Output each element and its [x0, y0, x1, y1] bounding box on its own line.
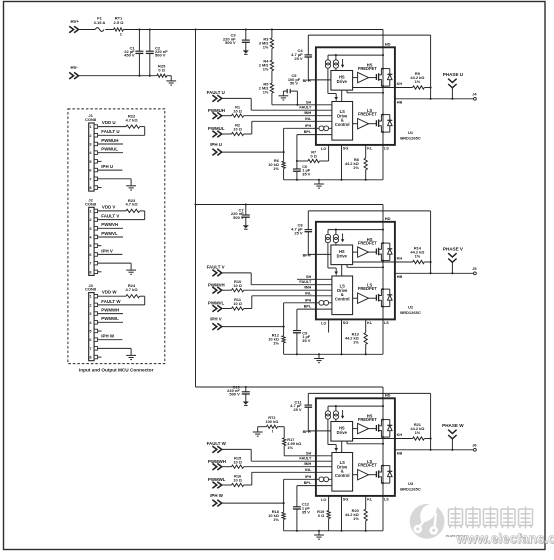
pin label SH: [306, 275, 312, 279]
svg-text:SH: SH: [306, 100, 312, 104]
svg-text:PWMVH: PWMVH: [101, 222, 118, 227]
svg-text:0 Ω: 0 Ω: [311, 154, 317, 159]
wire R25 to ground: [167, 76, 171, 81]
wire pin LO: [328, 145, 330, 161]
svg-text:KH: KH: [397, 82, 403, 86]
svg-text:Drive: Drive: [337, 430, 348, 435]
svg-text:6: 6: [89, 169, 91, 173]
wire pin SH stub: [297, 278, 332, 280]
svg-text:450 V: 450 V: [124, 53, 135, 58]
svg-text:SH: SH: [306, 451, 312, 455]
diode HS body: [383, 69, 392, 87]
wire left HV bus vertical: [195, 30, 197, 388]
svg-text:KH: KH: [397, 433, 403, 437]
svg-text:BRD1265C: BRD1265C: [400, 135, 421, 140]
capacitor C4 4.7 uF 25 V: [291, 35, 312, 80]
svg-text:CON8: CON8: [85, 287, 97, 292]
terminal J6: [472, 442, 477, 451]
svg-text:100 kΩ: 100 kΩ: [265, 419, 278, 424]
pin label IPH: [305, 124, 312, 128]
svg-text:BPL: BPL: [304, 130, 312, 134]
svg-text:1%: 1%: [273, 166, 279, 171]
svg-text:500 V: 500 V: [233, 215, 244, 220]
svg-text:IPH V: IPH V: [210, 317, 222, 322]
net flag PWMWH: [208, 459, 226, 470]
svg-text:HV+: HV+: [71, 19, 80, 24]
net flag IPH W: [210, 493, 224, 506]
pin label IPH: [305, 298, 312, 302]
net flag PHASE W: [442, 423, 464, 450]
svg-text:BPH: BPH: [303, 253, 311, 257]
pin 6 wire net IPH W: [98, 334, 123, 340]
svg-text:10 Ω: 10 Ω: [233, 283, 242, 288]
net flag PHASE V: [443, 247, 464, 274]
svg-text:SG: SG: [343, 498, 349, 502]
svg-text:1: 1: [89, 295, 91, 299]
svg-text:PWMVL: PWMVL: [101, 231, 118, 236]
wire HD drop: [382, 30, 384, 48]
pin 3 wire net PWMUH: [98, 138, 123, 144]
pin label FAULT: [299, 280, 312, 284]
svg-text:0 Ω: 0 Ω: [318, 513, 324, 518]
capacitor C12 1 uF 35 V: [293, 486, 310, 531]
wire HS Drive source ref: [347, 441, 384, 445]
svg-text:Control: Control: [335, 122, 350, 127]
svg-text:IPH W: IPH W: [101, 334, 115, 339]
svg-text:IPH V: IPH V: [101, 248, 113, 253]
junction C1 bottom: [138, 75, 140, 77]
label HS FREDFET: [358, 237, 377, 246]
svg-text:7: 7: [89, 262, 91, 266]
svg-text:SH: SH: [306, 275, 312, 279]
wire RT2 left to ground: [258, 427, 267, 432]
svg-text:Drive: Drive: [337, 79, 348, 84]
svg-text:KL: KL: [367, 321, 373, 325]
svg-text:LO: LO: [321, 147, 326, 151]
pin label BPL: [304, 481, 312, 485]
wire pin BPL: [297, 485, 332, 487]
wire KH to phase node: [424, 261, 431, 263]
svg-text:10 Ω: 10 Ω: [233, 478, 242, 483]
pin label INL: [305, 291, 312, 295]
svg-text:FAULT U: FAULT U: [207, 90, 225, 95]
pin 8 stub: [98, 356, 102, 358]
svg-text:8: 8: [89, 186, 91, 190]
connector J3 pins 1-8: [89, 294, 97, 359]
connector J2 pins 1-8: [89, 209, 97, 274]
wire FAULT input: [222, 449, 332, 461]
wire R to pin /INH: [244, 289, 332, 291]
pin 7 wire to ground: [98, 263, 132, 270]
wire R to pin INL: [244, 296, 332, 309]
svg-text:4.7 kΩ: 4.7 kΩ: [125, 202, 138, 207]
svg-text:INL: INL: [305, 468, 312, 472]
pin label LS: [384, 321, 389, 325]
svg-text:KL: KL: [367, 498, 373, 502]
svg-text:FAULT U: FAULT U: [101, 129, 119, 134]
net flag FAULT W: [207, 441, 227, 453]
transistor LS FREDFET: [376, 288, 384, 308]
svg-text:FREDFET: FREDFET: [358, 463, 377, 468]
wire HV bus to phase PHASE V HD: [196, 204, 384, 206]
svg-text:SG: SG: [343, 147, 349, 151]
svg-text:FREDFET: FREDFET: [358, 417, 377, 422]
arrow into LS control: [334, 268, 338, 276]
svg-text:4.7 kΩ: 4.7 kΩ: [125, 117, 138, 122]
wire bootstrap node line: [308, 393, 430, 449]
svg-text:PWMUH: PWMUH: [208, 108, 225, 113]
ground RT2: [253, 432, 263, 436]
wire HV+ to fuse: [79, 29, 95, 31]
svg-text:3: 3: [89, 227, 91, 231]
transistor LS FREDFET: [376, 465, 384, 485]
pin label BPL: [304, 130, 312, 134]
junction C2 bottom: [149, 75, 151, 77]
thermistor RT1 2.5 &#937;: [114, 15, 125, 37]
wire internal drain bus: [382, 47, 384, 180]
pin 6 wire net IPH V: [98, 248, 123, 254]
svg-text:1%: 1%: [415, 253, 421, 258]
svg-text:FAULT V: FAULT V: [101, 214, 119, 219]
wire internal drain bus: [382, 398, 384, 531]
svg-text:35 V: 35 V: [302, 338, 310, 343]
wire current source feed: [328, 54, 384, 60]
pin 4 wire net PWMUL: [98, 147, 123, 153]
ground C5: [279, 96, 289, 100]
wire pin BPL: [297, 308, 332, 310]
net flag PHASE U: [443, 72, 464, 99]
wire pin LO: [328, 496, 330, 511]
transistor LS FREDFET: [376, 114, 384, 134]
capacitor C1 22 uF 450 V: [124, 30, 143, 76]
pin label LO: [321, 498, 326, 502]
wire HV bus to phase PHASE W HD: [196, 386, 384, 388]
svg-text:2.5 Ω: 2.5 Ω: [114, 20, 125, 25]
svg-text:10 Ω: 10 Ω: [233, 301, 242, 306]
svg-text:6: 6: [89, 253, 91, 257]
wire I2 to HS Drive: [335, 419, 337, 421]
capacitor C2 220 nF 500 V: [146, 30, 168, 76]
current sense source: [319, 300, 329, 305]
capacitor C6 1 uF 35 V: [293, 160, 311, 180]
block HS Drive: [331, 422, 353, 442]
svg-text:/INH: /INH: [304, 286, 312, 290]
label HS FREDFET: [358, 62, 377, 71]
watermark chinese title: [449, 507, 533, 529]
svg-text:7: 7: [89, 177, 91, 181]
diode LS body: [383, 289, 392, 307]
junction C2 top: [149, 28, 151, 30]
wire pin BPH: [303, 253, 331, 257]
wire HS Drive to LS control: [341, 90, 343, 101]
svg-text:8: 8: [89, 270, 91, 274]
block LS Drive and Control: [332, 276, 353, 315]
diode LS body: [383, 115, 392, 133]
svg-text:SG: SG: [343, 321, 349, 325]
current direction arrow: [341, 234, 344, 243]
svg-text:LS: LS: [384, 498, 389, 502]
svg-text:BPH: BPH: [303, 79, 311, 83]
current source I1: [325, 411, 330, 419]
wire HV+ bus top: [123, 29, 383, 31]
resistor R18 10 k&#937;: [268, 503, 285, 531]
wire ground rail: [284, 353, 383, 355]
svg-text:1%: 1%: [415, 79, 421, 84]
svg-text:10 Ω: 10 Ω: [233, 460, 242, 465]
connector J1 pins 1-8: [89, 125, 97, 190]
resistor R12 10 k&#937;: [268, 327, 285, 355]
svg-text:PWMWL: PWMWL: [208, 477, 226, 482]
svg-text:INL: INL: [305, 291, 312, 295]
wire fuse to RT1: [105, 29, 113, 31]
svg-text:8: 8: [89, 356, 91, 360]
block HS Drive: [331, 71, 353, 91]
capacitor C5 100 pF 50 V: [283, 73, 300, 105]
block LS Drive and Control: [332, 102, 353, 141]
svg-text:1%: 1%: [273, 517, 279, 522]
block LS Drive and Control: [332, 453, 353, 492]
wire pin SG: [342, 319, 349, 354]
label U2 BRD1265C: [400, 305, 421, 315]
svg-text:500 V: 500 V: [155, 53, 166, 58]
current direction arrow: [341, 59, 344, 68]
wire PWML to R: [222, 133, 232, 135]
svg-text:5: 5: [89, 160, 91, 164]
svg-text:PWMWH: PWMWH: [208, 459, 226, 464]
capacitor C9 1 uF 35 V: [293, 309, 311, 354]
label LS FREDFET: [358, 108, 377, 117]
svg-text:IPH U: IPH U: [210, 142, 222, 147]
net flag PWMVL: [208, 300, 225, 311]
resistor R15 10 &#937;: [232, 456, 244, 469]
pin label FAULT: [299, 457, 312, 461]
block HS Drive: [331, 245, 353, 265]
label Input and Output MCU Connector: [79, 368, 154, 373]
svg-text:PWMUL: PWMUL: [101, 147, 118, 152]
resistor R19 0 &#937;: [317, 509, 330, 531]
wire pin BPH: [303, 430, 331, 434]
pin label SH: [306, 100, 312, 104]
svg-text:0 Ω: 0 Ω: [158, 67, 165, 72]
resistor R14 44.2 k&#937;: [410, 245, 424, 263]
op-amp driver IC U3 BRD1265C outline: [316, 398, 395, 496]
capacitor C10 220 nF 500 V: [227, 384, 250, 405]
pin 8 stub: [98, 271, 102, 273]
pin 1 wire net VDD U: [98, 120, 126, 127]
pin 5 stub: [98, 245, 102, 247]
net flag IPH V: [210, 317, 222, 330]
pin 2 wire net FAULT V: [98, 214, 145, 220]
buffer LS: [353, 470, 377, 480]
svg-text:2: 2: [89, 134, 91, 138]
wire bootstrap node line: [308, 35, 430, 99]
pin HB label: [397, 452, 403, 456]
wire HD drop: [382, 387, 384, 398]
label LS FREDFET: [358, 283, 377, 292]
wire PWMH to R: [222, 466, 232, 468]
resistor R5 2 M&#937;: [259, 71, 274, 95]
svg-text:PWMVH: PWMVH: [208, 283, 225, 288]
resistor R3 3 M&#937;: [259, 30, 274, 50]
current source I2: [333, 60, 338, 68]
arrow into LS control: [334, 94, 338, 102]
pin HD label: [385, 216, 391, 221]
op-amp driver IC U2 BRD1265C outline: [316, 222, 395, 320]
svg-text:50 V: 50 V: [290, 81, 298, 86]
svg-text:FREDFET: FREDFET: [358, 286, 377, 291]
wire pin KH: [353, 433, 413, 438]
wire I1 to control: [328, 419, 336, 444]
svg-text:1%: 1%: [415, 430, 421, 435]
svg-text:KL: KL: [367, 147, 373, 151]
pin label IPH: [305, 475, 312, 479]
resistor R4 2 M&#937;: [259, 49, 274, 72]
svg-text:CON8: CON8: [85, 117, 97, 122]
resistor R17 4.99 k&#937;: [283, 437, 302, 450]
svg-text:25 V: 25 V: [293, 407, 302, 412]
net flag PWMUH: [208, 108, 225, 119]
wire I2 to HS Drive: [335, 68, 337, 70]
svg-text:Input and Output MCU Connector: Input and Output MCU Connector: [79, 368, 154, 373]
svg-text:1%: 1%: [287, 445, 293, 450]
resistor R22 4.7 k&#937; pullup: [125, 114, 144, 136]
resistor R24 4.7 k&#937; pullup: [125, 283, 144, 305]
svg-text:FAULT: FAULT: [299, 106, 312, 110]
net flag IPH U: [210, 142, 222, 155]
buffer HS: [353, 247, 377, 257]
wire IPH input: [222, 303, 332, 328]
pin HD label: [385, 41, 391, 46]
svg-text:3.15 A: 3.15 A: [94, 20, 106, 25]
svg-text:7: 7: [89, 347, 91, 351]
svg-text:VDD U: VDD U: [102, 120, 116, 125]
ground J2 pin7: [126, 270, 136, 274]
current sense source: [319, 126, 329, 131]
svg-text:FAULT: FAULT: [299, 280, 312, 284]
svg-text:IPH: IPH: [305, 298, 312, 302]
buffer HS: [353, 423, 377, 433]
resistor R13 44.2 k&#937;: [345, 319, 373, 354]
svg-text:1%: 1%: [263, 67, 269, 72]
svg-text:IPH U: IPH U: [101, 164, 113, 169]
wire HS Drive to LS control: [341, 441, 343, 452]
arrow into LS control: [334, 445, 338, 453]
label LS FREDFET: [358, 459, 377, 468]
junction C1 top: [138, 28, 140, 30]
svg-text:Control: Control: [335, 473, 350, 478]
resistor R2 10 &#937;: [232, 123, 244, 136]
svg-text:10 Ω: 10 Ω: [233, 109, 242, 114]
pin 2 wire net FAULT U: [98, 129, 145, 135]
net flag FAULT V: [207, 264, 225, 276]
wire phase output PHASE V: [395, 272, 473, 274]
svg-text:PHASE W: PHASE W: [442, 423, 464, 428]
wire pin BPL: [297, 135, 332, 161]
resistor R21 44.2 k&#937;: [410, 422, 424, 440]
svg-text:LS: LS: [384, 147, 389, 151]
pin label LO: [321, 322, 326, 326]
pin 5 stub: [98, 160, 102, 162]
terminal J5: [472, 266, 477, 275]
svg-text:1%: 1%: [353, 516, 359, 521]
pin label /INH: [304, 462, 312, 466]
svg-text:FAULT W: FAULT W: [207, 441, 227, 446]
svg-text:VDD V: VDD V: [102, 204, 115, 209]
pin 3 wire net PWMWH: [98, 308, 123, 314]
svg-text:IPH: IPH: [305, 475, 312, 479]
ground rail symbol: [314, 531, 324, 539]
wire FAULT input: [222, 98, 332, 110]
svg-text:5: 5: [89, 244, 91, 248]
resistor R8 44.2 k&#937;: [345, 145, 373, 180]
svg-text:FAULT W: FAULT W: [101, 299, 121, 304]
connector J3 CON8 body: [85, 283, 97, 361]
wire R5 to SH: [272, 93, 332, 106]
junction C10 top: [245, 386, 247, 388]
svg-text:HD: HD: [385, 41, 391, 46]
transistor HS FREDFET: [376, 68, 384, 88]
svg-text:3: 3: [89, 143, 91, 147]
capacitor C11 4.7 uF 25 V: [290, 393, 312, 431]
terminal J4: [472, 91, 477, 100]
buffer LS: [353, 293, 377, 303]
wire PWML to R: [222, 308, 232, 310]
svg-text:Control: Control: [335, 296, 350, 301]
svg-text:1%: 1%: [263, 44, 269, 49]
wire HV- rail: [79, 75, 157, 77]
svg-text:FREDFET: FREDFET: [358, 241, 377, 246]
wire R to pin INL: [244, 121, 332, 134]
svg-text:PWMUH: PWMUH: [101, 138, 118, 143]
pin 4 wire net PWMVL: [98, 231, 123, 237]
svg-text:LO: LO: [321, 498, 326, 502]
resistor R25 0 &#937;: [157, 63, 167, 77]
diode HS body: [383, 420, 392, 438]
pin label FAULT: [299, 106, 312, 110]
svg-text:FREDFET: FREDFET: [358, 112, 377, 117]
junction R3 top: [271, 28, 273, 30]
pin label /INH: [304, 286, 312, 290]
svg-text:HB: HB: [397, 275, 403, 279]
wire RT2 to R17: [278, 427, 285, 438]
pin 6 wire net IPH U: [98, 164, 123, 170]
pin label INL: [305, 468, 312, 472]
svg-text:5: 5: [89, 330, 91, 334]
svg-text:3: 3: [89, 312, 91, 316]
svg-text:PWMVL: PWMVL: [208, 300, 225, 305]
pin label INL: [305, 117, 312, 121]
ground rail symbol: [314, 180, 324, 188]
ground J3 pin7: [126, 355, 136, 359]
net flag PWMVH: [208, 283, 225, 294]
svg-text:www.elecfans.com: www.elecfans.com: [455, 531, 554, 546]
label U1 BRD1265C: [400, 130, 421, 140]
pin 5 stub: [98, 330, 102, 332]
svg-text:HV-: HV-: [71, 65, 79, 70]
pin label LS: [384, 498, 389, 502]
resistor R10 10 &#937;: [232, 279, 244, 292]
current sense source: [319, 477, 329, 482]
svg-text:1%: 1%: [263, 89, 269, 94]
svg-text:25 V: 25 V: [294, 230, 303, 235]
svg-text:VDD W: VDD W: [102, 290, 117, 295]
wire internal drain bus: [382, 222, 384, 354]
pin 7 wire to ground: [98, 348, 132, 355]
pin label /INH: [304, 111, 312, 115]
transistor HS FREDFET: [376, 419, 384, 439]
svg-text:500 V: 500 V: [229, 392, 240, 397]
pin HB label: [397, 275, 403, 279]
